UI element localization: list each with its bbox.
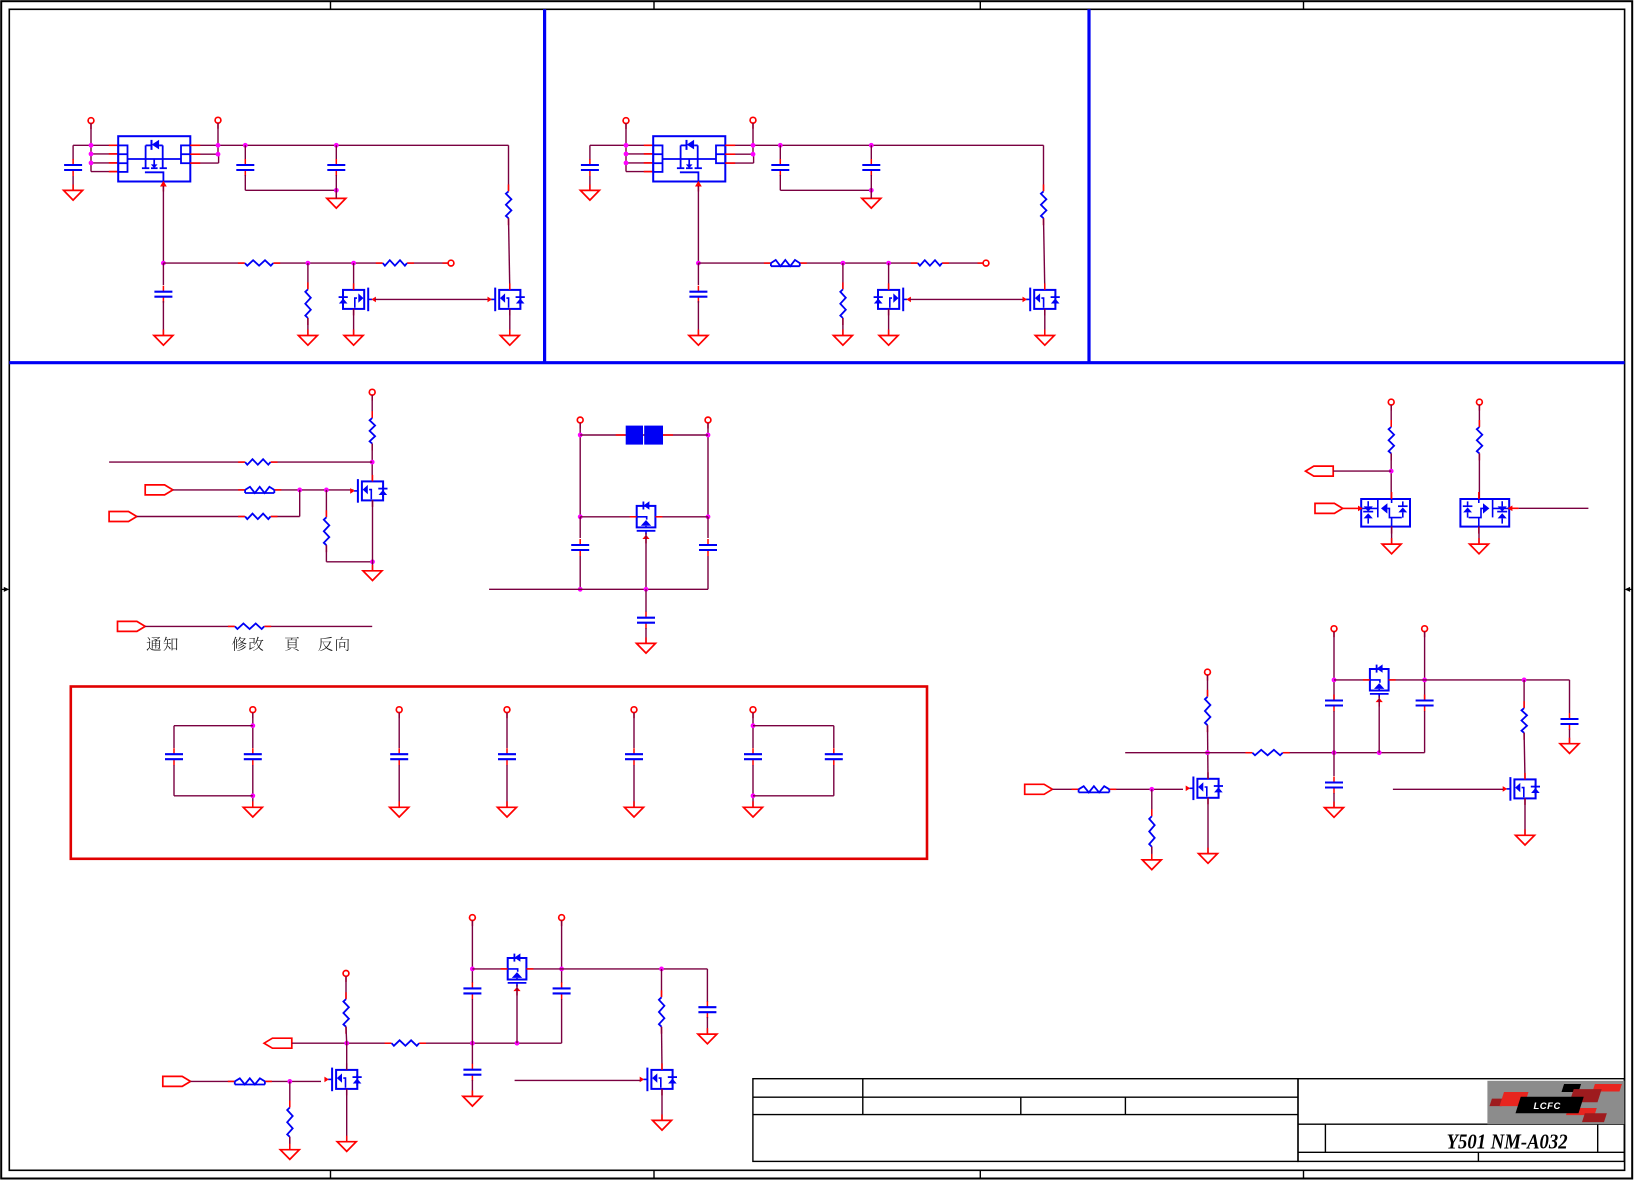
wire: [173, 726, 175, 748]
ground: [498, 801, 517, 817]
wire: [645, 533, 647, 589]
wire: [626, 153, 653, 155]
wire: [163, 262, 451, 264]
capacitor: [571, 539, 589, 556]
border tick: [330, 1, 332, 9]
capacitor: [637, 612, 655, 629]
wire: [471, 999, 473, 1043]
p-mosfet: [501, 953, 534, 995]
wire: [589, 145, 591, 160]
junction: [287, 1079, 292, 1084]
wire: [753, 795, 834, 797]
ground: [625, 801, 644, 817]
off-page terminal: [504, 707, 510, 718]
wire: [190, 162, 218, 164]
junction: [578, 587, 583, 592]
wire: [162, 301, 164, 336]
wire: [1478, 527, 1480, 545]
capacitor: [165, 748, 183, 765]
ground: [862, 192, 881, 208]
wire: [625, 123, 627, 171]
wire: [353, 263, 355, 290]
wire: [335, 190, 337, 198]
wire: [753, 725, 834, 727]
wire: [1390, 405, 1392, 427]
wire: [398, 713, 400, 748]
wire: [307, 318, 309, 336]
wire: [472, 968, 707, 970]
ground: [580, 184, 599, 200]
net connector: [1025, 784, 1053, 794]
ground: [744, 801, 763, 817]
resistor: [385, 1039, 427, 1048]
junction: [370, 559, 375, 564]
wire: [1044, 218, 1045, 290]
wire: [471, 1043, 473, 1064]
wire: [1151, 789, 1153, 816]
wire: [252, 765, 254, 807]
junction: [1389, 469, 1394, 474]
junction: [751, 143, 756, 148]
pin stub: [190, 144, 200, 146]
label text: [318, 637, 349, 651]
partition line vertical 2: [1087, 9, 1090, 362]
resistor: [238, 458, 277, 467]
wire: [91, 162, 118, 164]
wire: [1478, 405, 1480, 427]
off-page terminal: [215, 117, 221, 128]
wire: [289, 1137, 291, 1150]
wire: [870, 145, 872, 160]
capacitor: [699, 539, 717, 556]
resistor: [911, 259, 949, 268]
junction: [706, 514, 711, 519]
wire: [1333, 632, 1335, 701]
wire: [335, 145, 337, 160]
off-page terminal: [631, 707, 637, 718]
wire: [1207, 725, 1210, 779]
wire: [1569, 730, 1571, 744]
wire: [1391, 527, 1393, 545]
wire: [326, 561, 372, 563]
wire: [371, 395, 373, 418]
wire: [870, 190, 872, 198]
wire: [589, 176, 591, 190]
wire: [91, 153, 118, 155]
wire: [244, 175, 246, 190]
capacitor: [1561, 713, 1579, 730]
wire: [1424, 632, 1426, 701]
resistor: [238, 512, 277, 521]
capacitor: [1325, 777, 1343, 794]
wire: [842, 318, 844, 336]
wire: [707, 556, 709, 589]
ground: [637, 637, 656, 653]
off-page terminal: [250, 707, 256, 718]
wire: [1207, 798, 1209, 854]
junction: [216, 152, 221, 157]
wire: [489, 588, 708, 590]
wire: [162, 186, 164, 263]
capacitor: [1416, 695, 1434, 712]
wire: [707, 423, 709, 517]
wire: [1378, 696, 1380, 753]
wire: [1333, 711, 1335, 753]
wire: [697, 263, 699, 285]
ground: [1035, 330, 1054, 346]
net connector: [1306, 466, 1334, 476]
ground: [698, 1028, 717, 1044]
junction: [351, 261, 356, 266]
resistor: [228, 1077, 272, 1086]
wire: [398, 765, 400, 807]
wire: [1478, 453, 1480, 499]
junction: [297, 488, 302, 493]
resistor: [504, 184, 513, 225]
capacitor: [1325, 695, 1343, 712]
wire: [1044, 309, 1046, 336]
ground: [363, 565, 382, 581]
wire: [1425, 679, 1570, 681]
ground: [327, 192, 346, 208]
junction: [161, 261, 166, 266]
resistor: [238, 259, 280, 268]
dual-mosfet package: [118, 136, 190, 191]
off-page terminal: [470, 915, 476, 926]
pin stub: [109, 153, 118, 155]
junction: [1149, 787, 1154, 792]
ground: [298, 330, 317, 346]
resistor: [238, 485, 281, 494]
wire: [725, 144, 1043, 146]
border tick: [979, 1170, 981, 1178]
off-page terminal: [750, 707, 756, 718]
wire: [245, 189, 336, 191]
resistor: [376, 259, 414, 268]
wire: [780, 189, 871, 191]
wire: [725, 153, 753, 155]
wire: [506, 713, 508, 748]
wire: [697, 186, 699, 263]
border arrow right: [1625, 587, 1633, 592]
capacitor: [327, 159, 345, 176]
junction: [559, 967, 564, 972]
partition line horizontal: [9, 361, 1624, 364]
wire: [174, 795, 253, 797]
pin stub: [725, 153, 735, 155]
ground: [1560, 738, 1579, 754]
pin stub: [644, 171, 653, 173]
resistor: [838, 282, 847, 325]
title block table: [753, 1079, 1624, 1162]
capacitor: [498, 748, 516, 765]
wire: [1043, 145, 1045, 191]
junction: [869, 143, 874, 148]
junction: [89, 143, 94, 148]
logo background: [1487, 1081, 1624, 1124]
resistor: [657, 990, 666, 1033]
ground: [243, 801, 262, 817]
junction: [869, 188, 874, 193]
junction: [1522, 678, 1527, 683]
capacitor: [771, 159, 789, 176]
net connector: [109, 512, 137, 522]
pin stub: [644, 144, 653, 146]
mosfet Q: [324, 1063, 361, 1095]
wire: [698, 262, 986, 264]
junction: [706, 433, 711, 438]
wire: [833, 765, 835, 796]
capacitor: [825, 748, 843, 765]
capacitor: [862, 159, 880, 176]
off-page terminal: [1388, 399, 1394, 410]
wire: [173, 765, 175, 796]
border tick: [1303, 1, 1305, 9]
ground: [653, 1114, 672, 1130]
dual-mosfet package: [653, 136, 725, 191]
wire: [706, 969, 708, 1002]
junction: [334, 143, 339, 148]
junction: [578, 514, 583, 519]
border tick: [330, 1170, 332, 1178]
wire: [707, 517, 709, 538]
junction: [344, 1041, 349, 1046]
net connector: [1315, 503, 1343, 513]
svg-text:LCFC: LCFC: [1534, 1101, 1561, 1112]
wire: [506, 765, 508, 807]
wire: [752, 765, 754, 807]
wire: [752, 713, 754, 748]
wire: [561, 999, 563, 1043]
pin stub: [644, 162, 653, 164]
wire: [1333, 470, 1391, 472]
junction: [1422, 678, 1427, 683]
wire: [173, 489, 354, 491]
wire: [580, 516, 708, 518]
junction: [778, 143, 783, 148]
wire: [697, 301, 699, 336]
pin stub: [109, 144, 118, 146]
wire: [335, 175, 337, 190]
off-page terminal: [88, 118, 94, 129]
wire: [299, 490, 301, 517]
wire: [1523, 733, 1526, 780]
junction: [1332, 678, 1337, 683]
wire: [626, 162, 653, 164]
off-page terminal: [1331, 626, 1337, 637]
mosfet Q: [488, 283, 525, 315]
wire: [779, 175, 781, 190]
wire: [633, 765, 635, 807]
pin stub: [1509, 507, 1518, 509]
wire: [725, 162, 753, 164]
ground: [1516, 829, 1535, 845]
ground: [833, 330, 852, 346]
off-page terminal: [750, 117, 756, 128]
off-page terminal: [1477, 399, 1483, 410]
resistor: [764, 259, 807, 268]
resistor: [1147, 809, 1156, 853]
load-switch mosfet: [1460, 492, 1509, 534]
junction: [624, 143, 629, 148]
wire: [1334, 679, 1425, 681]
wire: [645, 628, 647, 643]
wire: [174, 725, 253, 727]
junction: [306, 261, 311, 266]
wire: [706, 1017, 708, 1034]
ground: [344, 330, 363, 346]
pin stub: [190, 153, 200, 155]
wire: [73, 144, 118, 146]
wire: [289, 1081, 291, 1107]
junction: [624, 152, 629, 157]
wire: [1390, 453, 1392, 499]
resistor: [1203, 690, 1212, 732]
load-switch mosfet: [1361, 492, 1410, 534]
border tick: [979, 1, 981, 9]
ground: [337, 1136, 356, 1152]
junction: [751, 723, 756, 728]
ground: [1325, 802, 1344, 818]
wire: [579, 423, 581, 517]
resistor: [228, 622, 271, 631]
border tick: [653, 1, 655, 9]
wire: [217, 123, 219, 154]
highlight box: [71, 687, 927, 859]
junction: [644, 587, 649, 592]
wire: [580, 434, 708, 436]
wire: [515, 1079, 641, 1081]
wire: [292, 1042, 562, 1044]
junction: [515, 1041, 520, 1046]
wire: [353, 309, 355, 336]
pin stub: [109, 162, 118, 164]
junction: [696, 261, 701, 266]
resistor: [342, 992, 351, 1033]
wire: [1519, 507, 1589, 509]
ground: [64, 184, 83, 200]
wire: [346, 1089, 348, 1142]
wire: [779, 145, 781, 160]
capacitor: [698, 1001, 716, 1018]
mosfet Q: [1023, 283, 1060, 315]
off-page terminal: [1205, 669, 1211, 680]
ground: [689, 330, 708, 346]
resistor: [368, 411, 377, 451]
wire: [579, 556, 581, 589]
wire: [1393, 788, 1503, 790]
wire: [661, 1089, 663, 1121]
wire: [509, 309, 511, 336]
resistor: [285, 1101, 294, 1144]
wire: [471, 1080, 473, 1096]
net connector: [118, 621, 146, 631]
wire: [1333, 753, 1335, 776]
ground: [1382, 538, 1401, 554]
off-page terminal: [369, 389, 375, 400]
wire: [1207, 675, 1209, 697]
wire: [661, 969, 663, 997]
pin stub: [725, 144, 735, 146]
capacitor: [236, 159, 254, 176]
junction: [89, 152, 94, 157]
resistor: [1072, 785, 1117, 794]
wire: [1524, 798, 1526, 835]
capacitor: [463, 1064, 481, 1081]
wire: [842, 263, 844, 289]
junction: [216, 143, 221, 148]
wire: [307, 263, 309, 289]
pin stub: [1343, 507, 1359, 509]
wire: [516, 985, 518, 1043]
svg-text:Y501 NM-A032: Y501 NM-A032: [1447, 1130, 1568, 1154]
off-page terminal: [343, 971, 349, 982]
wire: [561, 921, 563, 983]
mosfet Q: [640, 1063, 677, 1095]
wire: [162, 263, 164, 285]
p-mosfet: [1363, 664, 1396, 706]
wire: [752, 123, 754, 154]
LCFC logo: [1490, 1084, 1622, 1122]
wire: [1569, 680, 1571, 713]
wire: [190, 153, 218, 155]
gate arrow: [1358, 506, 1363, 512]
wire: [626, 171, 653, 173]
junction: [624, 161, 629, 166]
wire: [645, 589, 647, 612]
wire: [888, 309, 890, 336]
wire: [325, 545, 327, 562]
junction: [578, 433, 583, 438]
wire: [633, 713, 635, 748]
wire: [870, 175, 872, 190]
partition line vertical 1: [543, 9, 546, 362]
junction: [886, 261, 891, 266]
resistor: [1520, 701, 1529, 740]
wire: [579, 517, 581, 538]
resistor: [1387, 420, 1396, 460]
off-page terminal: [705, 417, 711, 428]
gate arrow: [1508, 506, 1513, 512]
junction: [89, 161, 94, 166]
junction: [243, 143, 248, 148]
net connector: [264, 1038, 292, 1048]
wire: [372, 500, 374, 561]
border tick: [653, 1170, 655, 1178]
mosfet Q: [1503, 773, 1540, 805]
pin stub: [190, 162, 200, 164]
wire: [371, 444, 373, 482]
resistor: [303, 282, 312, 325]
capacitor: [625, 748, 643, 765]
ground: [463, 1090, 482, 1106]
wire: [590, 144, 653, 146]
off-page terminal: [978, 260, 989, 266]
junction: [751, 152, 756, 157]
wire: [1151, 847, 1153, 860]
p-mosfet: [630, 501, 663, 543]
mosfet Q: [874, 283, 911, 315]
wire: [137, 516, 300, 518]
junction: [470, 1041, 475, 1046]
junction: [370, 460, 375, 465]
capacitor: [390, 748, 408, 765]
wire: [218, 154, 220, 163]
wire: [1052, 788, 1183, 790]
wire: [90, 123, 92, 171]
wire: [244, 145, 246, 160]
ground: [1470, 538, 1489, 554]
